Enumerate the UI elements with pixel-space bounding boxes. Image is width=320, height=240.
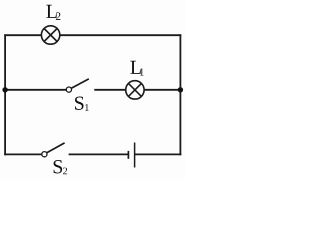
wire: top horizontal — [4, 34, 181, 36]
wire: bottom right segment (battery to right wire) — [135, 153, 182, 155]
label S1 — [75, 97, 89, 111]
battery cell: long plate (positive) — [134, 143, 136, 168]
wire: middle right segment (switch S1 to right wire) — [94, 89, 181, 91]
label L2 — [46, 5, 60, 20]
battery cell: short plate (negative) — [127, 151, 129, 159]
wire: bottom left segment — [4, 153, 42, 155]
node: left junction dot — [2, 87, 7, 92]
wire: left vertical — [4, 34, 6, 155]
wire: middle left segment — [4, 89, 66, 91]
label S2 — [54, 160, 68, 174]
wire: bottom middle segment (switch S2 to battery) — [69, 153, 129, 155]
wire: right vertical — [179, 34, 181, 155]
switch S1 — [66, 79, 89, 92]
lamp L2 — [41, 26, 59, 44]
label L1 — [130, 61, 143, 76]
node: right junction dot — [178, 87, 183, 92]
lamp L1 — [126, 81, 144, 99]
switch S2 — [42, 143, 65, 157]
